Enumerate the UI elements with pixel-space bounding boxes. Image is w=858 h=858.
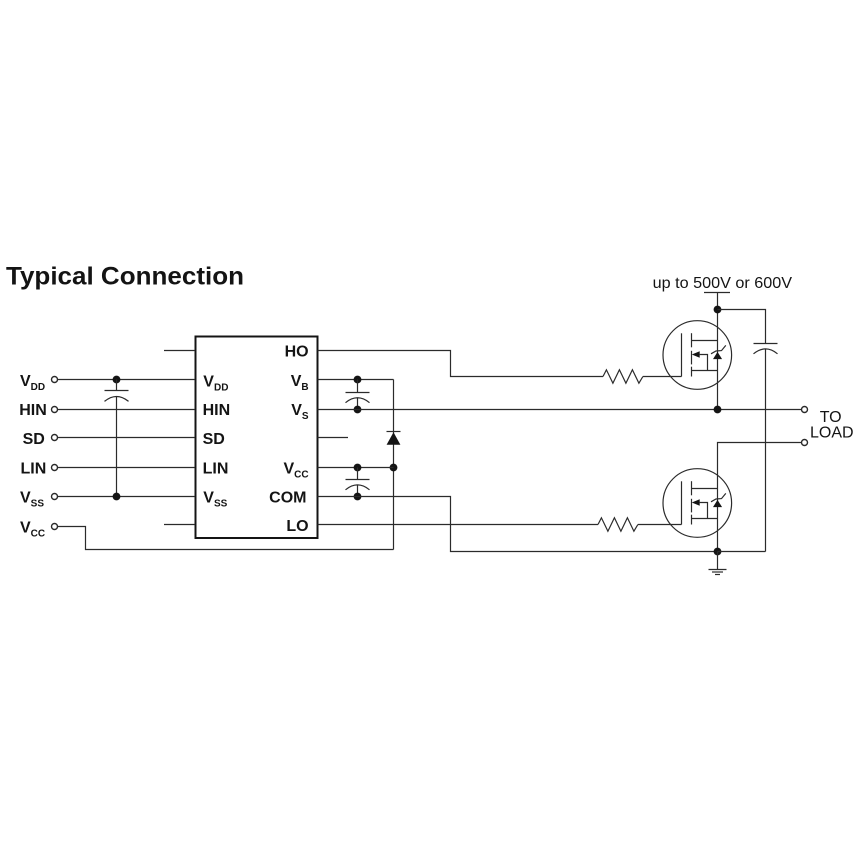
junction dot Vs node [714, 406, 722, 414]
right stub pin at SD row [318, 437, 349, 439]
wire VCC input to bottom rail [58, 527, 394, 550]
junction dot VCC cap top [354, 464, 362, 472]
wire VSS input [58, 496, 195, 498]
diode D1 bootstrap [387, 380, 401, 550]
terminal VSS [52, 494, 58, 500]
wire VCC right [318, 467, 394, 469]
HV rail tick [704, 292, 730, 294]
terminal TO LOAD upper [802, 407, 808, 413]
wire R1 to Q1 gate [643, 376, 682, 378]
wire load to Q2 drain [718, 443, 802, 489]
svg-text:VCC: VCC [20, 519, 45, 539]
junction dot VDD bypass cap top [113, 376, 121, 384]
wire Q1 source to Vs node [717, 371, 719, 410]
left stub pin at LO row [164, 524, 195, 526]
svg-text:SD: SD [23, 431, 45, 448]
wire bus capacitor to ground node [765, 349, 767, 552]
wire SD input [58, 437, 195, 439]
resistor R1 [603, 370, 643, 383]
junction dot VB cap top [354, 376, 362, 384]
svg-text:SD: SD [203, 431, 225, 448]
ground symbol [709, 552, 727, 575]
wire Vs line [318, 409, 802, 411]
wire LIN input [58, 467, 195, 469]
wire VB [318, 379, 394, 381]
wire HV rail to Q1 drain [717, 293, 719, 341]
terminal TO LOAD lower [802, 440, 808, 446]
svg-text:COM: COM [269, 489, 306, 506]
svg-text:VS: VS [291, 402, 309, 422]
label TO LOAD [810, 409, 854, 442]
MOSFET Q1 high side [663, 321, 732, 390]
svg-text:VSS: VSS [203, 489, 227, 509]
svg-text:HIN: HIN [19, 402, 47, 419]
wire HV rail to bus capacitor [718, 310, 766, 344]
wire HIN input [58, 409, 195, 411]
terminal LIN [52, 465, 58, 471]
junction dot VDD bypass cap bottom [113, 493, 121, 501]
IC U1 gate driver [196, 337, 318, 539]
capacitor C1 VDD-VSS bypass [105, 380, 129, 497]
junction dot D1 anode at VCC [390, 464, 398, 472]
svg-text:LIN: LIN [203, 461, 229, 478]
svg-text:VDD: VDD [203, 373, 228, 393]
wire LO to R2 [318, 524, 599, 526]
svg-text:VDD: VDD [20, 373, 45, 393]
left stub pin at HO row [164, 350, 195, 352]
capacitor C4 bus [754, 344, 778, 354]
svg-text:TO: TO [820, 409, 842, 426]
svg-text:up to 500V or 600V: up to 500V or 600V [653, 275, 793, 292]
wire Q2 source to ground node [717, 519, 719, 552]
terminal SD [52, 435, 58, 441]
resistor R2 [598, 518, 638, 531]
svg-text:VB: VB [291, 373, 309, 393]
wire HO to R1 [318, 351, 604, 377]
junction dot ground node [714, 548, 722, 556]
terminal VDD [52, 377, 58, 383]
svg-text:HO: HO [285, 344, 309, 361]
svg-text:LIN: LIN [21, 461, 47, 478]
svg-text:VCC: VCC [283, 461, 308, 481]
svg-text:Typical Connection: Typical Connection [6, 263, 244, 291]
wire R2 to Q2 gate [638, 524, 682, 526]
capacitor C2 bootstrap VB-VS [346, 380, 370, 410]
wire COM to ground node [318, 497, 718, 552]
terminal VCC [52, 524, 58, 530]
capacitor C3 VCC-COM [346, 468, 370, 497]
junction dot HV rail node [714, 306, 722, 314]
svg-text:VSS: VSS [20, 489, 44, 509]
MOSFET Q2 low side [663, 469, 732, 538]
wire ground node to bus capacitor [718, 551, 766, 553]
junction dot VB cap bottom on Vs line [354, 406, 362, 414]
svg-text:LOAD: LOAD [810, 425, 854, 442]
svg-text:LO: LO [286, 518, 308, 535]
wire VDD input [58, 379, 195, 381]
junction dot VCC cap bottom on COM line [354, 493, 362, 501]
terminal HIN [52, 407, 58, 413]
svg-text:HIN: HIN [203, 402, 231, 419]
